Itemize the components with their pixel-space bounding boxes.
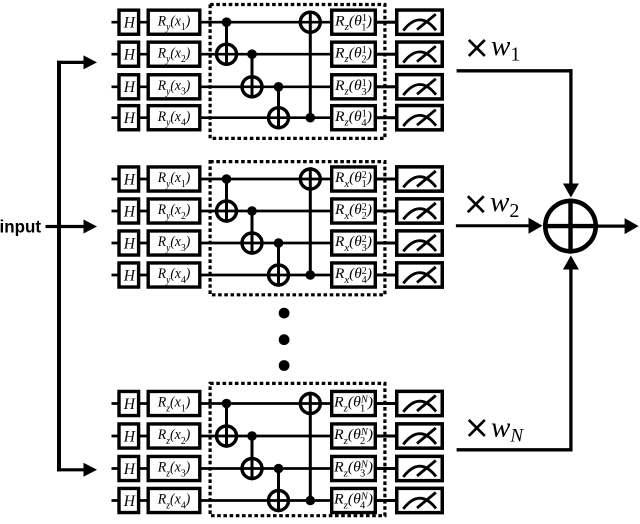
gate Rz(x2) block 3 qubit 2 — [148, 424, 200, 448]
ellipsis dots — [279, 308, 290, 371]
wire qubit 3 block 1 — [112, 85, 398, 88]
CNOT control q3 target q4 block 3 — [269, 464, 289, 513]
wire q2 to meter block 3 — [376, 435, 396, 438]
gate H block 2 qubit 1 — [119, 167, 139, 191]
gate Ry(x1) block 2 qubit 1 — [148, 167, 200, 191]
gate H block 3 qubit 4 — [119, 488, 139, 512]
gate H block 1 qubit 1 — [119, 10, 139, 34]
gate H block 3 qubit 2 — [119, 424, 139, 448]
wire q2 to meter block 2 — [376, 210, 396, 213]
gate Rz(theta_2^N) block 3 qubit 2 — [332, 424, 376, 448]
svg-text:H: H — [123, 396, 136, 413]
gate Rz(x1) block 3 qubit 1 — [148, 391, 200, 415]
CNOT control q4 target q1 block 3 — [300, 392, 320, 506]
gate H block 1 qubit 3 — [119, 75, 139, 99]
wire qubit 4 block 1 — [112, 116, 398, 119]
wire qubit 2 block 1 — [112, 53, 398, 56]
wire qubit 2 block 2 — [112, 210, 398, 213]
svg-text:H: H — [123, 15, 136, 32]
meter qubit 1 block 1 — [397, 10, 443, 34]
label x w1 — [469, 40, 485, 56]
label x w2 — [468, 196, 484, 212]
wire q1 to meter block 1 — [376, 21, 396, 24]
gate Rz(theta_3^1) block 1 qubit 3 — [332, 75, 376, 99]
wire input trunk vertical — [57, 61, 61, 472]
svg-text:H: H — [123, 79, 136, 96]
wire w1 to adder — [457, 69, 579, 197]
CNOT control q4 target q1 block 2 — [300, 167, 320, 280]
output arrow — [598, 218, 639, 234]
gate Ry(x2) block 2 qubit 2 — [148, 199, 200, 223]
gate H block 2 qubit 2 — [119, 199, 139, 223]
svg-text:H: H — [123, 493, 136, 510]
wire q2 to meter block 1 — [376, 53, 396, 56]
gate Rz(theta_2^1) block 1 qubit 2 — [332, 42, 376, 66]
label x wN — [469, 420, 485, 436]
gate Rz(theta_1^1) block 1 qubit 1 — [332, 10, 376, 34]
meter qubit 2 block 3 — [397, 424, 443, 448]
svg-text:H: H — [123, 235, 136, 252]
gate Rx(theta_4^2) block 2 qubit 4 — [332, 263, 376, 287]
wire q3 to meter block 1 — [376, 85, 396, 88]
wire wN to adder — [457, 256, 579, 452]
entangler dashed box block 2 — [210, 162, 385, 295]
svg-text:H: H — [123, 171, 136, 188]
entangler dashed box block 3 — [210, 383, 385, 515]
gate Rz(theta_4^1) block 1 qubit 4 — [332, 106, 376, 130]
gate H block 1 qubit 4 — [119, 106, 139, 130]
arrow into block 3 — [57, 463, 97, 477]
gate H block 3 qubit 1 — [119, 391, 139, 415]
gate Ry(x4) block 1 qubit 4 — [148, 106, 200, 130]
meter qubit 3 block 3 — [397, 456, 443, 480]
gate Rx(theta_2^2) block 2 qubit 2 — [332, 199, 376, 223]
entangler dashed box block 1 — [210, 5, 385, 139]
svg-text:H: H — [123, 203, 136, 220]
gate Rz(theta_1^N) block 3 qubit 1 — [332, 391, 376, 415]
gate Ry(x3) block 1 qubit 3 — [148, 75, 200, 99]
wire qubit 3 block 3 — [112, 467, 398, 470]
meter qubit 4 block 2 — [397, 263, 443, 287]
gate Ry(x1) block 1 qubit 1 — [148, 10, 200, 34]
wire qubit 4 block 2 — [112, 274, 398, 277]
svg-text:H: H — [123, 428, 136, 445]
arrow w2 into adder — [456, 218, 543, 234]
meter qubit 1 block 3 — [397, 391, 443, 415]
gate Rz(theta_3^N) block 3 qubit 3 — [332, 456, 376, 480]
meter qubit 1 block 2 — [397, 167, 443, 191]
meter qubit 2 block 1 — [397, 42, 443, 66]
svg-text:H: H — [123, 110, 136, 127]
gate Rz(x4) block 3 qubit 4 — [148, 488, 200, 512]
adder (circled plus) — [543, 199, 598, 254]
wire q4 to meter block 2 — [376, 274, 396, 277]
meter qubit 3 block 1 — [397, 75, 443, 99]
svg-text:H: H — [123, 461, 136, 478]
meter qubit 4 block 1 — [397, 106, 443, 130]
CNOT control q1 target q2 block 1 — [217, 17, 237, 66]
wire q4 to meter block 3 — [376, 499, 396, 502]
wire qubit 3 block 2 — [112, 242, 398, 245]
arrow into block 1 — [57, 55, 97, 69]
wire qubit 1 block 3 — [112, 402, 398, 405]
CNOT control q4 target q1 block 1 — [300, 11, 320, 123]
wire qubit 2 block 3 — [112, 435, 398, 438]
gate H block 3 qubit 3 — [119, 456, 139, 480]
wire input horizontal — [46, 225, 60, 228]
CNOT control q3 target q4 block 1 — [269, 82, 289, 129]
wire q3 to meter block 2 — [376, 242, 396, 245]
svg-text:input: input — [0, 217, 41, 237]
gate H block 2 qubit 4 — [119, 263, 139, 287]
wire q3 to meter block 3 — [376, 467, 396, 470]
wire qubit 4 block 3 — [112, 499, 398, 502]
wire q4 to meter block 1 — [376, 116, 396, 119]
meter qubit 2 block 2 — [397, 199, 443, 223]
wire qubit 1 block 2 — [112, 178, 398, 181]
wire q1 to meter block 2 — [376, 178, 396, 181]
gate Rx(theta_3^2) block 2 qubit 3 — [332, 231, 376, 255]
CNOT control q2 target q3 block 3 — [242, 431, 262, 480]
gate Rx(theta_1^2) block 2 qubit 1 — [332, 167, 376, 191]
wire qubit 1 block 1 — [112, 21, 398, 24]
arrow into block 2 — [59, 220, 97, 234]
gate Rz(theta_4^N) block 3 qubit 4 — [332, 488, 376, 512]
wire q1 to meter block 3 — [376, 402, 396, 405]
CNOT control q3 target q4 block 2 — [269, 238, 289, 287]
gate Ry(x4) block 2 qubit 4 — [148, 263, 200, 287]
CNOT control q2 target q3 block 2 — [242, 206, 262, 255]
gate Ry(x3) block 2 qubit 3 — [148, 231, 200, 255]
CNOT control q1 target q2 block 2 — [217, 174, 237, 223]
svg-text:H: H — [123, 267, 136, 284]
meter qubit 3 block 2 — [397, 231, 443, 255]
gate Rz(x3) block 3 qubit 3 — [148, 456, 200, 480]
gate Ry(x2) block 1 qubit 2 — [148, 42, 200, 66]
gate H block 1 qubit 2 — [119, 42, 139, 66]
CNOT control q1 target q2 block 3 — [217, 399, 237, 448]
meter qubit 4 block 3 — [397, 488, 443, 512]
CNOT control q2 target q3 block 1 — [242, 49, 262, 98]
svg-text:H: H — [123, 47, 136, 64]
gate H block 2 qubit 3 — [119, 231, 139, 255]
